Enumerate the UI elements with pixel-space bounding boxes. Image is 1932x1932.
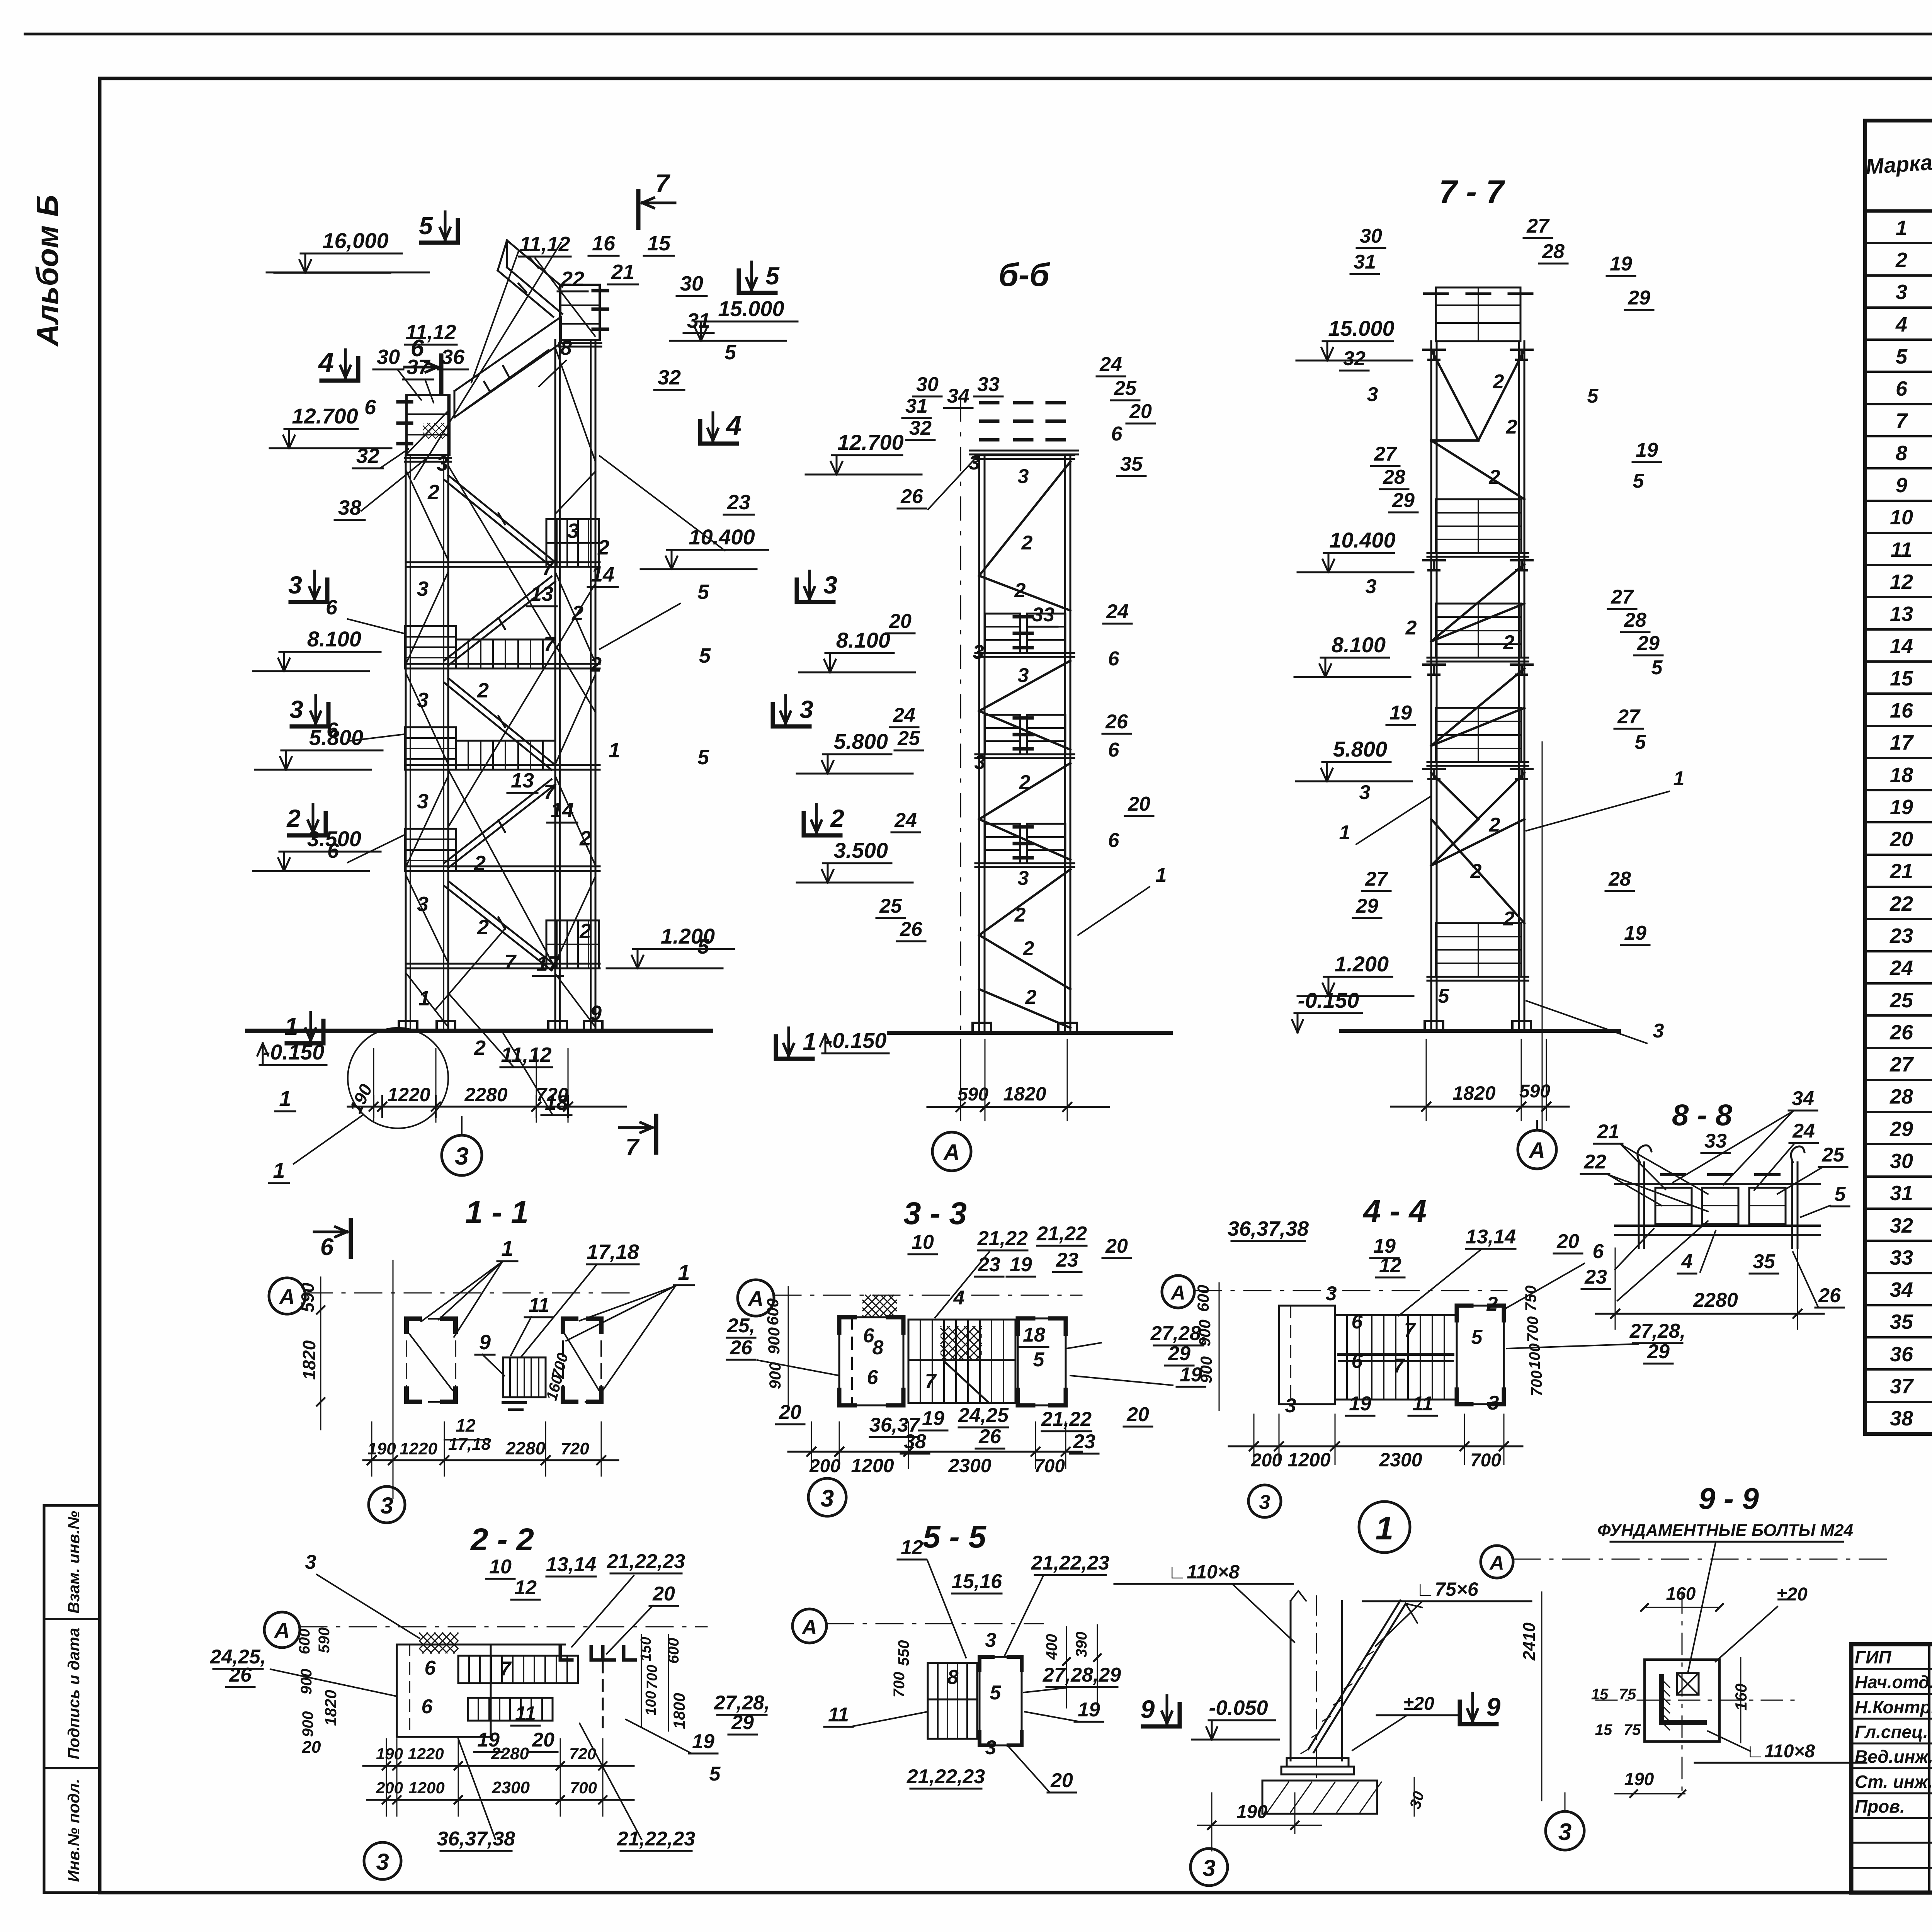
main elevation columns — [405, 455, 407, 1031]
3-3 stair strip — [908, 1320, 1015, 1360]
svg-text:37: 37 — [406, 355, 431, 379]
svg-text:1200: 1200 — [1287, 1449, 1330, 1471]
svg-text:2: 2 — [1895, 248, 1907, 272]
svg-text:3: 3 — [823, 571, 837, 599]
svg-text:23: 23 — [727, 491, 750, 514]
landing 5.800 left — [405, 727, 456, 770]
svg-text:20: 20 — [532, 1729, 554, 1751]
svg-text:7: 7 — [655, 169, 671, 197]
svg-text:1: 1 — [284, 1012, 298, 1040]
svg-text:17: 17 — [536, 952, 561, 975]
3-3 left box — [839, 1317, 903, 1405]
svg-text:21,22,23: 21,22,23 — [617, 1828, 695, 1850]
svg-text:200: 200 — [1251, 1450, 1282, 1471]
base detail brace — [1314, 1604, 1406, 1752]
svg-text:6: 6 — [422, 1696, 433, 1718]
6-6 diagonals — [979, 462, 1070, 576]
1-1 corner brackets — [406, 1319, 420, 1332]
4-4 stair strip — [1335, 1315, 1457, 1400]
svg-text:28: 28 — [1624, 609, 1646, 631]
svg-text:35: 35 — [1890, 1310, 1913, 1333]
svg-text:22: 22 — [1889, 892, 1913, 915]
svg-text:28: 28 — [1608, 868, 1631, 890]
svg-text:15.000: 15.000 — [718, 296, 784, 321]
svg-text:15: 15 — [647, 232, 671, 255]
svg-text:16: 16 — [1890, 699, 1913, 722]
svg-text:13,14: 13,14 — [546, 1553, 596, 1576]
svg-text:7: 7 — [504, 951, 517, 974]
svg-text:11,12: 11,12 — [405, 321, 456, 344]
svg-text:9: 9 — [1141, 1695, 1155, 1723]
svg-text:2: 2 — [1025, 986, 1037, 1009]
svg-text:11,12: 11,12 — [519, 233, 570, 256]
svg-text:2: 2 — [597, 536, 609, 559]
svg-text:1: 1 — [501, 1236, 513, 1260]
svg-text:5: 5 — [1438, 985, 1450, 1007]
svg-text:А: А — [747, 1286, 764, 1311]
svg-text:2: 2 — [1021, 532, 1033, 554]
svg-text:-0.150: -0.150 — [1298, 988, 1359, 1012]
svg-text:20: 20 — [1889, 828, 1913, 851]
svg-text:А: А — [279, 1284, 295, 1309]
svg-text:-0.150: -0.150 — [825, 1028, 887, 1053]
svg-text:7: 7 — [544, 633, 556, 656]
svg-text:590: 590 — [957, 1084, 988, 1105]
svg-text:9: 9 — [1896, 474, 1907, 497]
svg-text:5: 5 — [699, 644, 711, 667]
svg-text:4: 4 — [318, 347, 334, 378]
svg-text:2: 2 — [1486, 1293, 1498, 1315]
bottom dims main elevation — [348, 1106, 626, 1108]
svg-text:26: 26 — [1889, 1021, 1913, 1044]
svg-text:24: 24 — [1106, 600, 1129, 623]
svg-text:5: 5 — [1651, 656, 1663, 679]
svg-text:3: 3 — [975, 751, 986, 774]
svg-text:600: 600 — [764, 1298, 782, 1325]
1-1 ladder box — [503, 1357, 546, 1397]
svg-text:5: 5 — [1633, 470, 1645, 492]
svg-text:3: 3 — [973, 641, 984, 663]
long cross diagonals — [448, 466, 595, 712]
svg-text:21,22,23: 21,22,23 — [1031, 1552, 1109, 1574]
6-6 top cap bolts — [981, 401, 998, 405]
svg-text:-0.050: -0.050 — [1209, 1696, 1268, 1719]
svg-text:12.700: 12.700 — [292, 404, 358, 428]
svg-text:25: 25 — [1889, 989, 1913, 1012]
svg-text:1820: 1820 — [321, 1690, 340, 1726]
svg-text:11: 11 — [1412, 1393, 1433, 1415]
svg-text:2280: 2280 — [1693, 1289, 1738, 1311]
svg-text:12.700: 12.700 — [837, 430, 903, 454]
svg-text:32: 32 — [356, 444, 379, 468]
svg-text:900: 900 — [298, 1669, 315, 1695]
svg-text:19: 19 — [1610, 253, 1632, 275]
svg-text:2: 2 — [1489, 466, 1500, 488]
landing 15.000 cap — [560, 285, 600, 340]
svg-text:24: 24 — [894, 809, 917, 832]
svg-text:29: 29 — [1889, 1117, 1913, 1141]
svg-text:19: 19 — [477, 1729, 500, 1751]
svg-text:1 - 1: 1 - 1 — [465, 1195, 529, 1230]
svg-text:26: 26 — [1105, 711, 1128, 733]
svg-text:1: 1 — [803, 1028, 816, 1056]
6-6 dims — [927, 1106, 1109, 1108]
svg-text:31: 31 — [1890, 1182, 1913, 1205]
svg-text:7: 7 — [626, 1134, 640, 1161]
svg-text:А: А — [1170, 1282, 1185, 1304]
svg-text:75: 75 — [1619, 1686, 1636, 1703]
svg-text:36,37,38: 36,37,38 — [437, 1828, 515, 1850]
svg-text:24: 24 — [1792, 1120, 1815, 1142]
svg-text:4 - 4: 4 - 4 — [1362, 1194, 1427, 1229]
svg-text:20: 20 — [1128, 793, 1150, 815]
svg-text:6: 6 — [320, 1234, 334, 1260]
svg-text:1: 1 — [418, 987, 430, 1010]
svg-text:10: 10 — [1890, 506, 1913, 529]
svg-text:Подпись и дата: Подпись и дата — [65, 1628, 83, 1759]
svg-text:600: 600 — [1194, 1285, 1212, 1312]
svg-text:6: 6 — [1108, 739, 1120, 761]
svg-text:2: 2 — [1023, 937, 1034, 960]
brace diagonals main elevation — [406, 471, 448, 560]
svg-text:1200: 1200 — [408, 1779, 444, 1797]
9-9 dims — [1645, 1607, 1719, 1608]
svg-text:21: 21 — [1597, 1121, 1619, 1143]
svg-text:19: 19 — [1078, 1699, 1100, 1721]
svg-text:24: 24 — [1099, 353, 1122, 376]
landing 12.700 cap — [406, 395, 449, 455]
svg-text:А: А — [943, 1140, 960, 1165]
section flags around main elevation — [636, 191, 641, 228]
svg-text:190: 190 — [1624, 1769, 1654, 1789]
svg-text:14: 14 — [591, 563, 614, 586]
flight 12.7 to 15.0 — [454, 317, 561, 391]
8-8 dims — [1596, 1313, 1824, 1315]
7-7 columns — [1430, 341, 1432, 1031]
svg-text:2: 2 — [1503, 908, 1515, 930]
svg-text:3: 3 — [417, 689, 429, 712]
svg-text:29: 29 — [1355, 895, 1378, 917]
svg-text:3: 3 — [288, 571, 302, 599]
svg-text:11: 11 — [529, 1294, 549, 1316]
svg-text:2 - 2: 2 - 2 — [470, 1522, 534, 1557]
svg-text:700: 700 — [644, 1665, 660, 1689]
svg-text:20: 20 — [779, 1401, 801, 1423]
svg-text:5.800: 5.800 — [1333, 737, 1387, 761]
svg-text:19: 19 — [1389, 702, 1412, 724]
svg-text:6: 6 — [364, 396, 376, 419]
svg-text:23: 23 — [1073, 1430, 1095, 1453]
svg-text:1: 1 — [1376, 1510, 1394, 1546]
svg-text:26: 26 — [978, 1425, 1002, 1448]
svg-text:25,: 25, — [727, 1315, 755, 1337]
svg-text:17: 17 — [1890, 731, 1914, 754]
svg-text:8: 8 — [1896, 442, 1907, 465]
svg-text:2: 2 — [427, 481, 439, 504]
svg-text:3: 3 — [1488, 1392, 1499, 1414]
svg-text:8.100: 8.100 — [836, 628, 890, 652]
svg-text:8: 8 — [560, 336, 572, 359]
svg-text:19: 19 — [922, 1407, 944, 1430]
svg-text:27: 27 — [1889, 1053, 1914, 1076]
svg-text:Альбом Б: Альбом Б — [30, 195, 65, 347]
svg-text:1: 1 — [1156, 864, 1167, 886]
svg-text:1820: 1820 — [1003, 1083, 1046, 1105]
svg-text:2: 2 — [830, 804, 844, 832]
svg-text:1: 1 — [1896, 216, 1907, 240]
svg-text:13: 13 — [1890, 602, 1913, 626]
svg-text:1: 1 — [279, 1086, 291, 1111]
svg-text:5 - 5: 5 - 5 — [923, 1519, 986, 1554]
svg-text:13,14: 13,14 — [1466, 1226, 1516, 1248]
svg-text:9: 9 — [1486, 1692, 1501, 1721]
2-2 plan outline — [397, 1645, 491, 1737]
svg-text:19: 19 — [1890, 796, 1913, 819]
svg-text:26: 26 — [229, 1664, 252, 1686]
svg-text:20: 20 — [652, 1583, 675, 1605]
svg-text:600: 600 — [665, 1638, 682, 1664]
svg-text:29: 29 — [1392, 489, 1415, 512]
svg-text:12: 12 — [901, 1536, 923, 1559]
svg-text:3: 3 — [437, 452, 448, 475]
svg-text:20: 20 — [1050, 1769, 1073, 1792]
svg-text:190: 190 — [367, 1439, 396, 1458]
svg-text:720: 720 — [561, 1439, 589, 1458]
svg-text:26: 26 — [900, 918, 923, 940]
svg-text:5: 5 — [697, 580, 709, 604]
svg-text:7: 7 — [1896, 409, 1908, 432]
1-1 grid vline — [393, 1260, 394, 1498]
svg-text:400: 400 — [1043, 1634, 1060, 1660]
svg-text:5: 5 — [724, 341, 736, 364]
svg-text:4: 4 — [953, 1287, 965, 1309]
svg-text:28: 28 — [1383, 466, 1405, 488]
svg-text:30: 30 — [377, 345, 400, 369]
svg-text:3: 3 — [1326, 1282, 1337, 1305]
svg-text:12: 12 — [1890, 570, 1913, 594]
svg-text:3: 3 — [1653, 1020, 1664, 1042]
svg-text:21,22,23: 21,22,23 — [607, 1550, 685, 1573]
svg-text:1: 1 — [678, 1260, 690, 1284]
svg-text:3: 3 — [1367, 383, 1378, 406]
svg-text:3: 3 — [799, 696, 813, 723]
7-7 zigzag diagonals — [1431, 350, 1478, 440]
svg-text:Вед.инж.: Вед.инж. — [1855, 1747, 1932, 1767]
svg-text:700: 700 — [1528, 1371, 1545, 1396]
svg-text:13: 13 — [530, 582, 553, 605]
svg-text:29: 29 — [731, 1711, 754, 1734]
svg-text:31: 31 — [687, 309, 710, 332]
svg-text:15,16: 15,16 — [952, 1570, 1002, 1593]
sheet top edge line — [25, 33, 1932, 36]
svg-text:900: 900 — [765, 1327, 783, 1354]
svg-text:13: 13 — [511, 769, 534, 792]
svg-text:160: 160 — [1666, 1583, 1696, 1604]
svg-text:16: 16 — [592, 232, 616, 255]
base detail column — [1290, 1601, 1292, 1760]
5-5 stair strip — [928, 1663, 977, 1739]
svg-text:6: 6 — [1111, 423, 1123, 445]
svg-text:2: 2 — [1493, 371, 1504, 393]
svg-text:5: 5 — [1033, 1349, 1045, 1371]
svg-text:2300: 2300 — [1379, 1449, 1422, 1471]
svg-text:20: 20 — [302, 1738, 321, 1757]
svg-text:10.400: 10.400 — [1329, 528, 1395, 552]
svg-text:1: 1 — [1339, 821, 1350, 844]
svg-text:29: 29 — [1628, 287, 1650, 309]
svg-text:5: 5 — [1896, 345, 1908, 368]
svg-text:А: А — [801, 1616, 817, 1639]
svg-text:25: 25 — [1114, 377, 1137, 400]
svg-text:±20: ±20 — [1403, 1694, 1434, 1714]
svg-text:24,25: 24,25 — [958, 1404, 1009, 1427]
detail circle 1 — [1359, 1502, 1410, 1553]
svg-text:2300: 2300 — [948, 1455, 991, 1476]
left stamp boxes — [44, 1505, 100, 1893]
svg-text:38: 38 — [338, 496, 361, 519]
svg-text:18: 18 — [1023, 1324, 1045, 1346]
svg-text:А: А — [274, 1618, 290, 1643]
4-4 dims — [1229, 1446, 1522, 1447]
5-5 right box — [980, 1657, 1022, 1745]
svg-text:7: 7 — [1404, 1319, 1416, 1342]
3-3 hatch patches — [863, 1295, 896, 1317]
svg-text:5: 5 — [765, 262, 780, 290]
svg-text:ГИП: ГИП — [1855, 1647, 1891, 1667]
svg-text:28: 28 — [1542, 240, 1565, 263]
svg-text:1.200: 1.200 — [1335, 952, 1389, 976]
svg-text:3: 3 — [1259, 1491, 1270, 1514]
svg-text:±20: ±20 — [1777, 1584, 1808, 1605]
svg-text:1: 1 — [609, 739, 620, 762]
svg-text:11: 11 — [828, 1704, 849, 1726]
svg-text:190: 190 — [1236, 1802, 1267, 1822]
svg-text:2: 2 — [1019, 771, 1031, 794]
svg-text:200: 200 — [376, 1779, 403, 1797]
svg-text:2: 2 — [286, 804, 301, 832]
svg-text:12: 12 — [1379, 1254, 1401, 1277]
6-6 columns — [978, 455, 980, 1033]
svg-text:11: 11 — [1891, 538, 1912, 561]
svg-text:30: 30 — [1890, 1150, 1913, 1173]
svg-text:Гл.спец.: Гл.спец. — [1855, 1722, 1928, 1742]
svg-text:2300: 2300 — [492, 1778, 530, 1797]
svg-text:8.100: 8.100 — [307, 627, 361, 651]
svg-text:2: 2 — [1405, 617, 1417, 639]
svg-text:6: 6 — [1352, 1350, 1363, 1372]
svg-text:6: 6 — [867, 1366, 879, 1389]
svg-text:33: 33 — [1704, 1130, 1727, 1152]
svg-text:30: 30 — [1360, 225, 1382, 247]
svg-text:17,18: 17,18 — [448, 1435, 491, 1454]
svg-text:19: 19 — [1349, 1393, 1371, 1415]
svg-text:720: 720 — [536, 1084, 568, 1105]
svg-text:190: 190 — [376, 1745, 403, 1763]
svg-text:3: 3 — [455, 1142, 469, 1170]
1-1 right channel — [563, 1318, 601, 1320]
svg-text:4: 4 — [725, 410, 742, 441]
svg-text:А: А — [1528, 1138, 1545, 1163]
6-6 centerline — [960, 398, 961, 1117]
svg-text:38: 38 — [1890, 1407, 1913, 1430]
svg-text:3: 3 — [985, 1736, 997, 1759]
svg-text:2280: 2280 — [505, 1438, 546, 1458]
svg-text:33: 33 — [1890, 1246, 1913, 1269]
9-9 plate — [1645, 1660, 1719, 1742]
svg-text:20: 20 — [1556, 1230, 1579, 1253]
svg-text:23: 23 — [1584, 1266, 1607, 1288]
svg-text:8.100: 8.100 — [1332, 633, 1386, 657]
svg-text:2: 2 — [1489, 814, 1500, 836]
svg-text:23: 23 — [1889, 924, 1913, 947]
svg-text:23: 23 — [978, 1253, 1000, 1276]
svg-text:∟110×8: ∟110×8 — [1168, 1561, 1240, 1583]
svg-text:14: 14 — [1890, 634, 1913, 658]
svg-text:∟75×6: ∟75×6 — [1416, 1578, 1479, 1600]
6-6 levels — [975, 454, 1074, 456]
3-3 dims — [788, 1451, 1082, 1453]
svg-text:2: 2 — [579, 920, 591, 943]
svg-text:2: 2 — [571, 602, 583, 625]
svg-text:19: 19 — [1636, 439, 1658, 461]
svg-text:15: 15 — [1591, 1686, 1609, 1703]
9-9 center lines — [1682, 1592, 1683, 1797]
8-8 beam assembly — [1615, 1183, 1820, 1185]
2-2 right posts — [560, 1647, 572, 1660]
svg-text:32: 32 — [1343, 347, 1366, 370]
svg-text:7 - 7: 7 - 7 — [1439, 173, 1505, 210]
svg-text:3: 3 — [985, 1629, 997, 1651]
svg-text:7: 7 — [925, 1370, 937, 1393]
svg-text:5: 5 — [709, 1763, 721, 1785]
svg-text:3: 3 — [1285, 1395, 1296, 1417]
svg-text:8 - 8: 8 - 8 — [1672, 1098, 1733, 1132]
svg-text:17,18: 17,18 — [587, 1240, 639, 1264]
svg-text:10: 10 — [489, 1556, 512, 1578]
svg-text:37: 37 — [1890, 1375, 1914, 1398]
svg-text:10: 10 — [912, 1231, 934, 1253]
svg-text:8: 8 — [947, 1666, 959, 1689]
7-7 landings — [1436, 499, 1521, 553]
svg-text:7: 7 — [500, 1658, 512, 1680]
svg-text:390: 390 — [1073, 1632, 1090, 1658]
svg-text:15: 15 — [1595, 1721, 1612, 1738]
svg-text:30: 30 — [916, 373, 939, 396]
svg-text:2: 2 — [474, 852, 486, 875]
svg-text:б-б: б-б — [998, 257, 1050, 293]
svg-text:6: 6 — [326, 596, 338, 619]
4-4 right box — [1457, 1306, 1504, 1404]
svg-text:3: 3 — [567, 519, 579, 543]
svg-text:550: 550 — [895, 1640, 912, 1666]
svg-text:750: 750 — [1522, 1286, 1539, 1311]
svg-text:25: 25 — [879, 895, 902, 917]
svg-text:6: 6 — [863, 1325, 875, 1347]
svg-text:6: 6 — [327, 839, 339, 862]
top flight 8 — [507, 240, 562, 287]
svg-text:1: 1 — [273, 1158, 285, 1182]
svg-text:3: 3 — [1896, 281, 1907, 304]
7-7 dims — [1391, 1106, 1569, 1108]
svg-text:3: 3 — [305, 1551, 316, 1573]
svg-text:27: 27 — [1611, 586, 1634, 608]
svg-text:3: 3 — [1366, 575, 1377, 598]
svg-text:5.800: 5.800 — [834, 729, 888, 753]
svg-text:9: 9 — [590, 1002, 602, 1025]
svg-text:590: 590 — [298, 1282, 318, 1312]
svg-text:27,28,: 27,28, — [1629, 1320, 1686, 1342]
1-1 left channel — [406, 1318, 456, 1320]
